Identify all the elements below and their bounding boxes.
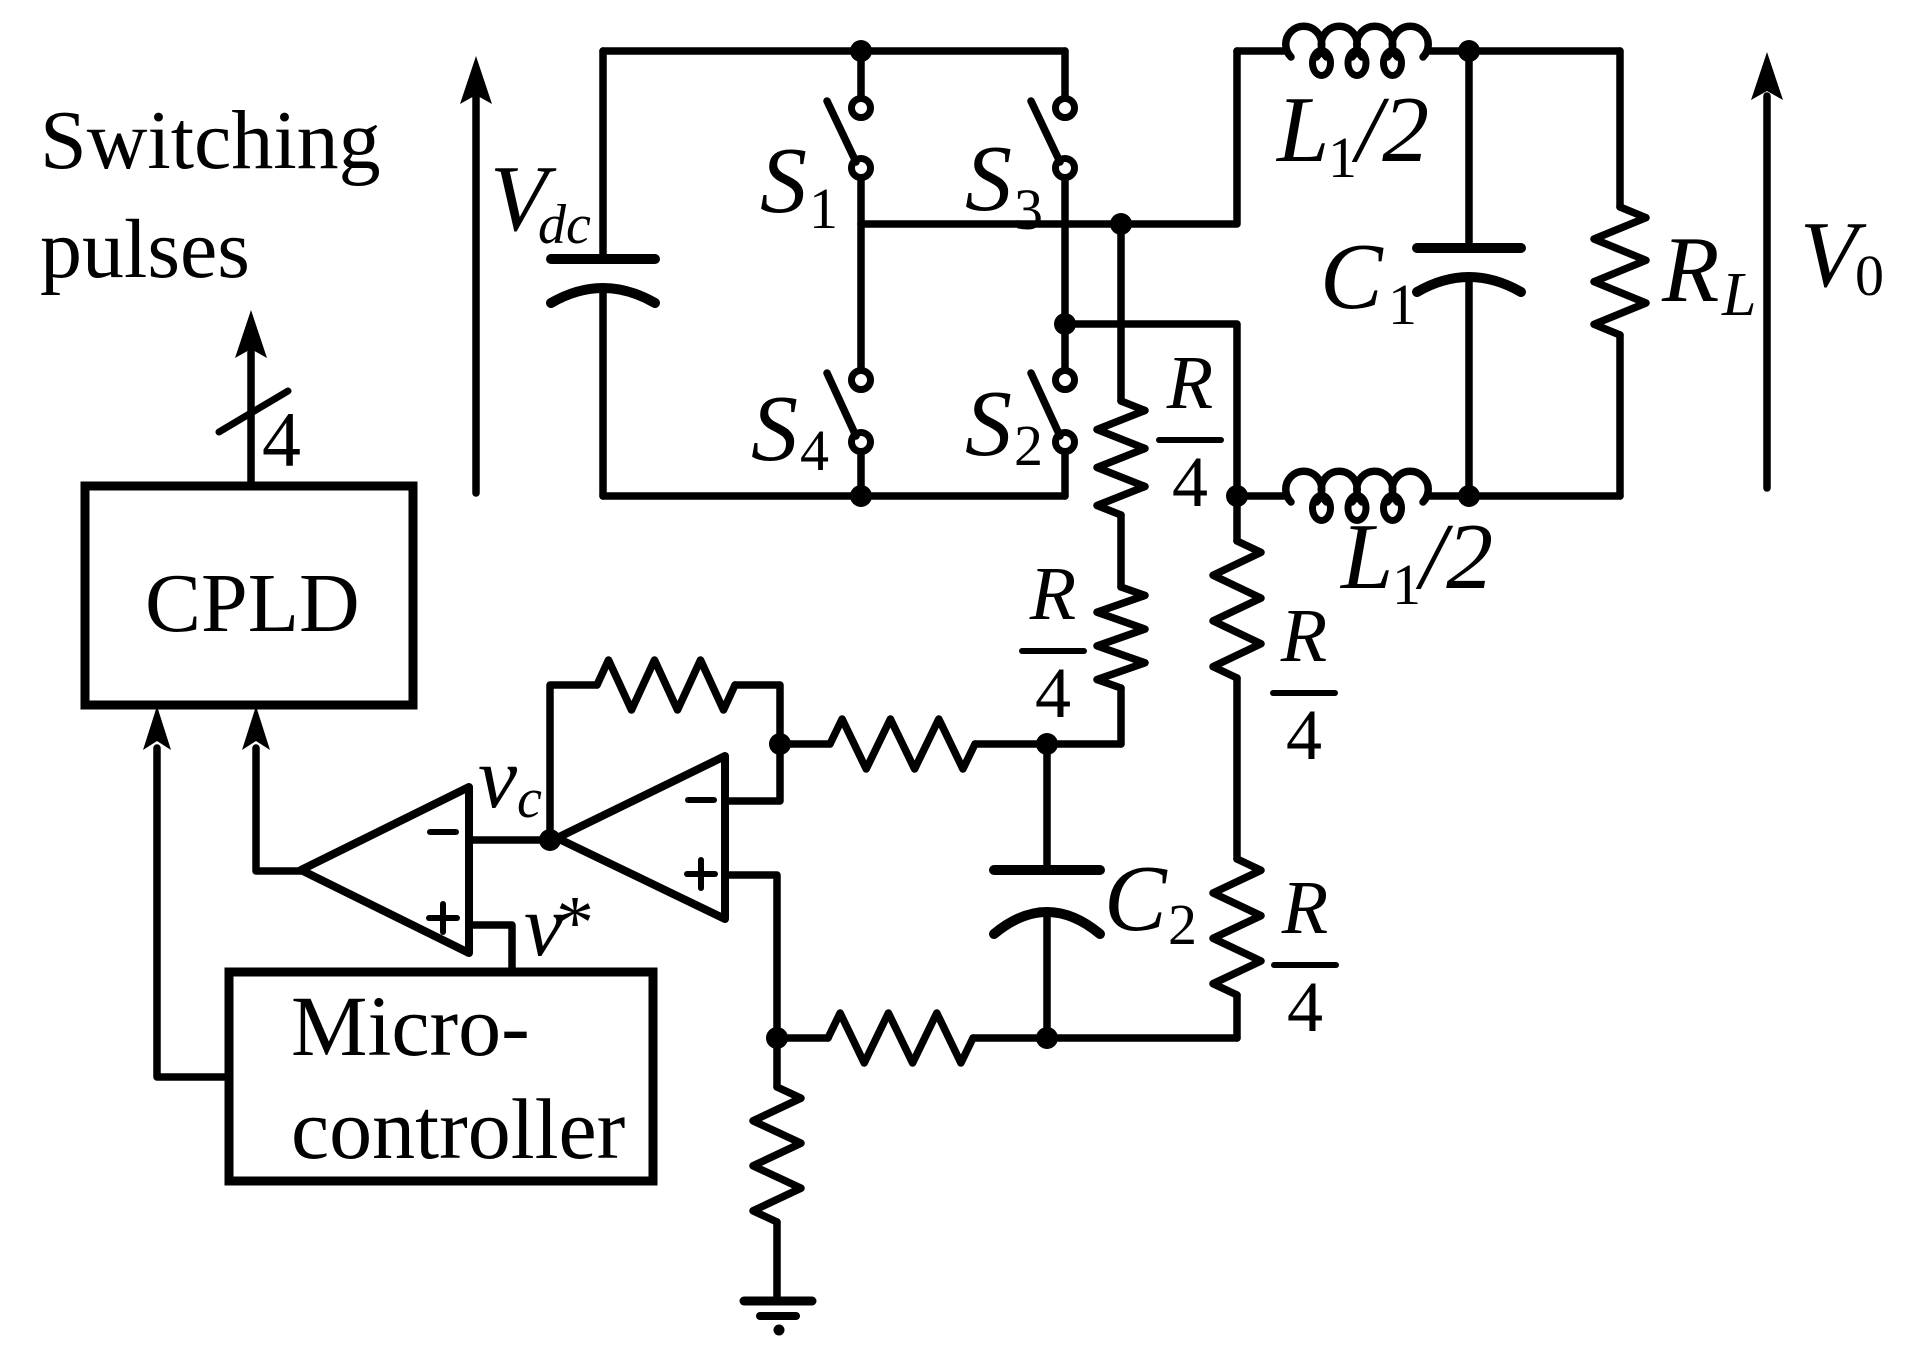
capacitor Vdc source	[551, 254, 655, 264]
svg-text:L: L	[1721, 261, 1756, 329]
node: inductor bottom left junction	[1226, 485, 1248, 507]
svg-text:dc: dc	[538, 194, 591, 256]
svg-text:S: S	[751, 377, 798, 481]
wire: DC source left leg upper	[599, 51, 607, 257]
resistor R/4 fourth (chain B)	[1213, 859, 1261, 995]
bus slash	[219, 391, 288, 432]
svg-text:/2: /2	[1415, 505, 1493, 609]
wire: U2 noninverting input	[725, 875, 777, 1038]
svg-text:CPLD: CPLD	[145, 557, 360, 650]
wire: C1 top lead	[1465, 51, 1473, 245]
op-amp U2	[557, 756, 725, 919]
wire: DC bus bottom	[603, 492, 1065, 500]
wire: C2 top lead	[1043, 744, 1051, 866]
capacitor C1	[1417, 243, 1521, 253]
node: top bus junction	[850, 40, 872, 62]
Micro-controller box	[229, 972, 653, 1181]
svg-text:2: 2	[1014, 413, 1043, 478]
wire: S3-S2 midpoint to divider (node B)	[1065, 324, 1237, 541]
svg-text:v: v	[478, 730, 518, 827]
node: U2 feedback node	[769, 733, 791, 755]
ground	[744, 1297, 812, 1306]
label Vdc	[490, 147, 591, 256]
svg-text:pulses: pulses	[40, 203, 250, 296]
label S1	[760, 129, 838, 241]
svg-text:L: L	[1275, 78, 1329, 182]
wire: C1 bottom lead	[1465, 280, 1473, 496]
svg-text:R: R	[1166, 341, 1213, 425]
label S3	[965, 127, 1043, 242]
svg-text:L: L	[1339, 505, 1393, 609]
node: C1 bottom junction	[1458, 485, 1480, 507]
wire: chain A upper lead	[1117, 224, 1125, 401]
svg-text:4: 4	[1287, 967, 1323, 1047]
bus arrow from CPLD (switching pulses)	[247, 352, 255, 486]
wire: U1 output to CPLD	[256, 748, 301, 871]
wire: feedback left leg	[550, 685, 597, 839]
wire: plus node to series R bottom	[777, 1034, 828, 1042]
capacitor C2	[994, 865, 1100, 875]
svg-text:1: 1	[1388, 272, 1417, 337]
node: U2 plus input node	[766, 1027, 788, 1049]
wire: feedback right leg	[735, 685, 780, 744]
svg-text:2: 2	[1168, 892, 1197, 957]
resistor series input R (top)	[830, 719, 975, 769]
node: S3-S2 midpoint	[1054, 313, 1076, 335]
node: bottom bus junction	[850, 485, 872, 507]
label V0	[1800, 203, 1884, 308]
op-amp U1	[301, 787, 469, 953]
wire: U1 noninverting input from microcontroller	[469, 925, 512, 972]
inductor L1/2 top	[1237, 47, 1286, 55]
wire: U2 inverting input	[725, 744, 780, 801]
svg-text:c: c	[517, 768, 542, 830]
svg-text:S: S	[965, 127, 1012, 231]
svg-text:4: 4	[1172, 442, 1208, 522]
arrow into CPLD (from microcontroller)	[143, 706, 171, 750]
switch S1	[827, 51, 871, 224]
svg-text:/2: /2	[1351, 78, 1429, 182]
resistor RL	[1616, 51, 1624, 207]
resistor to ground	[773, 1038, 781, 1087]
svg-text:4: 4	[262, 396, 301, 483]
node: chain A tap junction	[1110, 213, 1132, 235]
svg-text:Switching: Switching	[40, 94, 381, 187]
wire: microcontroller to CPLD	[157, 748, 229, 1077]
label v*	[524, 878, 594, 975]
wire: chain B middle lead	[1233, 678, 1241, 859]
svg-text:S: S	[760, 129, 807, 233]
wire: S1-S4 midpoint to filter (node A)	[861, 51, 1237, 224]
U2 plus sign	[687, 871, 715, 877]
wire: series R to chain A corner	[975, 740, 1121, 748]
label L1/2 top	[1275, 78, 1429, 190]
svg-text:R: R	[1029, 552, 1076, 636]
label vc	[478, 730, 542, 830]
wire: DC bus top	[603, 47, 1065, 55]
wire: DC source left leg lower	[599, 291, 607, 496]
inductor L1/2 bottom	[1237, 492, 1286, 500]
svg-text:3: 3	[1014, 177, 1043, 242]
svg-text:1: 1	[1392, 552, 1421, 617]
wire: chain B lower lead	[1233, 995, 1241, 1038]
svg-text:R: R	[1281, 866, 1328, 950]
switch S3	[1031, 51, 1075, 369]
label C2	[1104, 847, 1197, 957]
wire: chain A middle lead	[1117, 515, 1125, 587]
CPLD box	[85, 486, 413, 705]
wire: wire from feedback node to series R	[780, 740, 830, 748]
svg-text:C: C	[1104, 847, 1168, 951]
svg-text:controller: controller	[291, 1081, 625, 1177]
svg-text:*: *	[556, 881, 594, 965]
svg-text:R: R	[1280, 594, 1327, 678]
label Switching pulses	[40, 94, 381, 296]
node: C2 top junction	[1036, 733, 1058, 755]
node: C2 bottom junction	[1036, 1027, 1058, 1049]
svg-text:C: C	[1320, 225, 1384, 329]
U1 minus sign	[430, 829, 456, 835]
resistor feedback R (U2)	[597, 660, 735, 710]
label S2	[965, 372, 1043, 478]
svg-text:1: 1	[809, 176, 838, 241]
wire: C2 bottom lead	[1043, 912, 1051, 1038]
resistor R/4 second (chain A)	[1097, 587, 1145, 688]
arrow V0	[1763, 96, 1771, 488]
switch S2	[1031, 371, 1075, 497]
U1 plus sign	[429, 915, 457, 921]
node: C1 top junction	[1458, 40, 1480, 62]
resistor R/4 third (chain B)	[1213, 541, 1261, 678]
svg-text:S: S	[965, 372, 1012, 476]
svg-text:R: R	[1661, 218, 1719, 322]
resistor series input R (bottom)	[828, 1013, 973, 1063]
svg-text:4: 4	[1035, 653, 1071, 733]
svg-text:Micro-: Micro-	[291, 978, 530, 1074]
label L1/2 bottom	[1339, 505, 1493, 617]
label Micro-controller	[291, 978, 625, 1177]
wire: U2 output to U1 inverting input	[469, 836, 557, 844]
wire: chain A lower lead	[1117, 688, 1125, 744]
wire: series R bottom to chain B corner	[973, 1034, 1237, 1042]
resistor R/4 first (chain A)	[1097, 401, 1145, 515]
label S4	[751, 377, 829, 483]
svg-text:0: 0	[1855, 243, 1884, 308]
node: vc node	[539, 829, 561, 851]
svg-text:1: 1	[1328, 125, 1357, 190]
U2 minus sign	[688, 797, 714, 803]
svg-text:4: 4	[800, 418, 829, 483]
label C1	[1320, 225, 1417, 337]
label RL	[1661, 218, 1756, 329]
arrow into CPLD (from comparator)	[242, 706, 270, 750]
arrow Vdc	[472, 96, 480, 493]
switch S4	[827, 224, 871, 496]
svg-text:4: 4	[1286, 695, 1322, 775]
